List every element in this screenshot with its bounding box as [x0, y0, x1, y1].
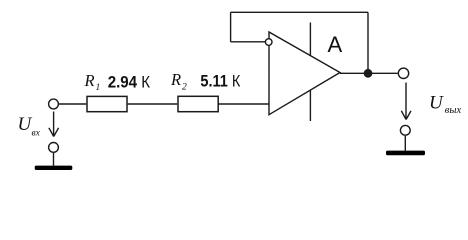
wire R1 to R2	[128, 103, 178, 105]
wire feedback horizontal into bubble	[231, 41, 266, 43]
wire feedback right vertical	[367, 12, 369, 73]
label U output	[429, 93, 461, 117]
wire R2 to op-amp input	[219, 103, 269, 105]
wire to right ground	[404, 136, 406, 151]
inverting input bubble	[265, 39, 272, 46]
svg-text:2: 2	[182, 83, 187, 93]
svg-text:U: U	[18, 114, 33, 135]
node output junction	[364, 69, 373, 78]
wire feedback top horizontal	[231, 11, 368, 13]
resistor R2	[178, 96, 218, 111]
wire to left ground	[53, 153, 55, 166]
svg-text:2.94 К: 2.94 К	[108, 73, 151, 92]
label R1	[84, 71, 101, 93]
ground left	[35, 166, 73, 170]
label U input	[18, 114, 41, 138]
svg-text:1: 1	[96, 83, 101, 93]
ground right	[386, 151, 425, 156]
wire op-amp output	[340, 72, 398, 74]
input terminal circle	[49, 99, 59, 109]
svg-text:вх: вх	[32, 129, 41, 139]
op-amp top power pin	[309, 23, 311, 56]
svg-text:A: A	[328, 32, 343, 57]
svg-text:R: R	[84, 71, 95, 90]
svg-text:вых: вых	[445, 105, 462, 116]
output lower terminal circle	[400, 125, 410, 135]
svg-text:U: U	[429, 93, 444, 114]
arrow output down	[405, 83, 407, 119]
op-amp bottom power pin	[309, 90, 311, 121]
wire feedback left vertical	[230, 12, 232, 42]
input lower terminal circle	[49, 143, 59, 153]
resistor R1	[87, 96, 127, 111]
label R2	[170, 70, 187, 92]
svg-text:5.11 К: 5.11 К	[200, 71, 240, 90]
arrow input down	[53, 112, 55, 136]
output terminal circle	[398, 68, 408, 78]
svg-text:R: R	[170, 70, 181, 89]
wire input terminal to R1	[59, 103, 86, 105]
op-amp U1 triangle	[269, 32, 340, 115]
